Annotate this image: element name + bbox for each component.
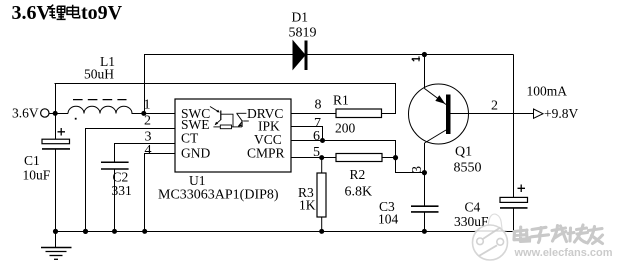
- capacitor C4 top plate: [500, 197, 528, 202]
- svg-text:U1: U1: [189, 173, 206, 188]
- svg-text:CT: CT: [181, 131, 199, 146]
- wire R2 right: [382, 157, 396, 159]
- title CJK char 电 (drawn): [67, 5, 80, 18]
- wire R3 bottom lead: [321, 217, 323, 232]
- node C3 ground dot: [422, 229, 427, 234]
- svg-text:Q1: Q1: [455, 145, 472, 160]
- watermark text 电子发烧友 (drawn): [514, 225, 603, 244]
- watermark logo: [473, 214, 508, 260]
- svg-text:3.6V: 3.6V: [12, 2, 52, 24]
- wire pin 4 GND: [145, 154, 176, 232]
- svg-text:C1: C1: [24, 153, 40, 168]
- IC internal switch base arrow: [216, 110, 219, 113]
- node pin 5 dot: [319, 155, 324, 160]
- node C1 ground dot: [53, 229, 58, 234]
- wire pin 3 CT: [115, 144, 176, 163]
- title CJK char 锂 (drawn): [49, 5, 66, 20]
- capacitor C2 bottom plate: [101, 168, 129, 170]
- svg-text:50uH: 50uH: [84, 67, 114, 82]
- inductor L1 coil: [68, 106, 144, 113]
- wire Q1 collector vertical: [424, 143, 426, 173]
- wire pin 6 VCC: [291, 141, 425, 173]
- capacitor C2 top plate: [101, 161, 129, 163]
- wire top rail right: [307, 54, 514, 56]
- svg-text:100mA: 100mA: [527, 84, 568, 99]
- capacitor C3 top plate: [411, 205, 439, 207]
- svg-text:4: 4: [145, 143, 152, 158]
- ground symbol: [41, 232, 72, 260]
- diode D1: [293, 41, 308, 71]
- node pin1 junction dot: [141, 111, 146, 116]
- transistor Q1 emitter diagonal: [425, 89, 447, 105]
- capacitor C4 plus sign: [518, 185, 526, 193]
- IC internal resistor: [220, 125, 231, 129]
- IC internal wire resistor to driver: [232, 126, 243, 128]
- svg-text:www.elecfans.com: www.elecfans.com: [514, 247, 613, 259]
- node R2 right dot: [393, 155, 398, 160]
- svg-text:10uF: 10uF: [23, 168, 51, 183]
- inductor L1 phase dot: [75, 118, 77, 120]
- IC U1 box: [175, 99, 291, 172]
- svg-text:8: 8: [315, 98, 322, 113]
- svg-text:1K: 1K: [299, 198, 316, 213]
- IC internal switch emitter arrow: [215, 122, 219, 126]
- inductor L1 core dashes: [73, 99, 127, 101]
- wire top rail left: [144, 54, 293, 56]
- wire pin 1: [144, 113, 176, 115]
- svg-text:D1: D1: [292, 10, 309, 25]
- wire ground rail: [55, 231, 514, 233]
- svg-text:104: 104: [378, 212, 399, 227]
- capacitor C1 lead bottom: [55, 149, 57, 232]
- resistor R3: [317, 173, 326, 217]
- capacitor C2 lead bottom: [114, 169, 116, 232]
- IC internal driver emitter arrow: [238, 124, 242, 127]
- svg-text:2: 2: [144, 114, 151, 129]
- wire Q1 emitter vertical: [424, 55, 426, 89]
- wire pin 7 IPK: [291, 127, 323, 141]
- wire pin 8 DRVC: [291, 113, 336, 115]
- svg-text:6: 6: [313, 129, 320, 144]
- node collector junction dot: [422, 170, 427, 175]
- output arrow: [534, 109, 544, 118]
- svg-text:2: 2: [491, 99, 498, 114]
- capacitor C1 top plate: [42, 139, 70, 144]
- capacitor C1 bottom plate: [42, 148, 70, 150]
- wire R3 top lead: [321, 158, 323, 174]
- svg-text:5819: 5819: [289, 26, 317, 41]
- terminal input circle: [41, 109, 49, 117]
- svg-text:331: 331: [112, 183, 132, 198]
- node pin 6 dot: [320, 138, 325, 143]
- wire pin 5 CMPR: [291, 157, 336, 159]
- svg-text:8550: 8550: [454, 161, 482, 176]
- IC internal switch transistor: [210, 107, 233, 127]
- capacitor C1 lead top: [55, 114, 57, 140]
- wire diode anode vertical: [144, 55, 146, 114]
- IC internal emitter wire: [213, 126, 220, 128]
- node boost output dot: [422, 52, 427, 57]
- svg-text:6.8K: 6.8K: [345, 185, 373, 200]
- capacitor C3 bottom plate: [411, 211, 439, 213]
- capacitor C1 plus sign: [58, 128, 66, 136]
- transistor Q1 base bar: [446, 95, 451, 135]
- svg-text:to9V: to9V: [81, 2, 123, 24]
- transistor Q1 emitter arrow: [435, 95, 445, 104]
- node R3 ground dot: [319, 229, 324, 234]
- node SWE ground dot: [83, 229, 88, 234]
- wire input to node: [49, 113, 68, 115]
- capacitor C3 bottom lead: [424, 212, 426, 232]
- svg-text:3.6V: 3.6V: [12, 106, 39, 121]
- node C2 ground dot: [112, 229, 117, 234]
- svg-text:GND: GND: [181, 146, 210, 161]
- capacitor C4 bottom lead: [513, 208, 515, 232]
- wire pin 2 SWE to ground: [86, 129, 176, 232]
- svg-text:1: 1: [144, 98, 151, 113]
- wire battery rail top: [55, 84, 396, 114]
- IC internal driver transistor: [236, 113, 249, 127]
- capacitor C4 bottom plate: [500, 207, 528, 209]
- svg-text:MC33063AP1(DIP8): MC33063AP1(DIP8): [158, 188, 279, 203]
- svg-text:200: 200: [335, 121, 356, 136]
- title text: [12, 2, 123, 24]
- transistor Q1 circle: [409, 84, 469, 144]
- wire output cap vertical: [513, 55, 515, 198]
- capacitor C3 top lead: [424, 173, 426, 207]
- transistor Q1 collector diagonal: [425, 130, 447, 143]
- resistor R2: [336, 154, 382, 162]
- node pin4 ground dot: [142, 229, 147, 234]
- wire Q1 base output: [451, 113, 534, 115]
- label Q1 pin 1 rotated: [412, 56, 420, 61]
- svg-text:+9.8V: +9.8V: [544, 106, 578, 121]
- svg-text:R2: R2: [350, 167, 366, 182]
- svg-text:C4: C4: [465, 200, 481, 215]
- svg-text:CMPR: CMPR: [247, 146, 285, 161]
- node input junction dot: [53, 111, 58, 116]
- wire battery rail up: [55, 84, 57, 114]
- svg-text:R1: R1: [333, 93, 349, 108]
- resistor R1: [336, 109, 382, 118]
